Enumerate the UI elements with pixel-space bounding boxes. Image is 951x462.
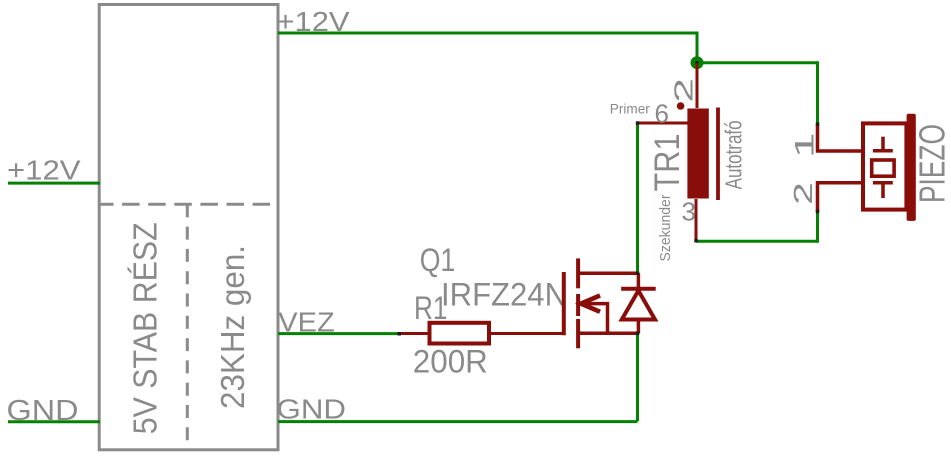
body diode triangle [622,291,655,320]
transistor Q1 channel segment 3 [576,319,580,348]
svg-text:3: 3 [682,197,697,227]
wire drain to TR1 pin6 [636,124,639,272]
transistor Q1 gate bar [562,272,566,335]
svg-text:5V STAB RÉSZ: 5V STAB RÉSZ [126,222,163,434]
transformer TR1 coil body [687,109,708,199]
body diode bottom link [637,320,641,334]
wire VEZ [278,332,399,335]
dashed divider horizontal [100,203,278,206]
piezo crystal rect [872,160,894,176]
junction mark pin3 [694,239,698,243]
resistor R1 body [430,323,490,344]
junction center mark [695,61,699,65]
piezo right bar [907,114,916,221]
svg-text:1: 1 [789,132,819,158]
transistor Q1 drain line [578,271,637,275]
transistor Q1 channel segment 1 [576,258,580,288]
transformer TR1 pin 2 [696,63,699,108]
junction mark pin6 [636,121,640,125]
svg-text:6: 6 [655,99,669,129]
wire GND right [278,420,638,423]
transformer TR1 pin 6 [638,122,689,125]
wire +12V rail top [278,33,818,124]
transformer TR1 pin 3 [695,199,698,241]
svg-text:+12V: +12V [7,155,81,186]
transistor Q1 bulk arrow head [581,296,600,312]
junction mark piezo pin2 [816,210,820,214]
transistor Q1 source line [578,332,637,336]
wire +12V left stub [8,182,100,185]
transistor Q1 channel segment 2 [576,294,580,316]
transformer TR1 polarity dot [677,102,685,110]
resistor R1 left pin [399,332,428,335]
svg-text:2: 2 [669,78,698,103]
piezo crystal plate bottom stem [881,185,885,199]
piezo crystal plate bottom [873,181,893,185]
wire source to GND [636,335,639,422]
junction mark resistor/VEZ [398,332,402,336]
svg-text:Primer: Primer [610,101,650,117]
svg-text:Szekunder: Szekunder [657,195,674,262]
junction node +12V/TR1 [691,56,704,69]
svg-text:GND: GND [277,394,347,425]
svg-text:200R: 200R [413,343,488,379]
dashed divider vertical [186,204,189,449]
junction mark piezo pin1 [816,122,820,126]
piezo crystal plate top [873,149,893,153]
svg-text:TR1: TR1 [648,134,687,192]
piezo crystal plate top stem [881,137,885,149]
piezo pin 1 wire [818,124,862,151]
module box (5V STAB / 23KHz gen.) [99,5,278,450]
body diode top link [637,273,641,289]
resistor R1 right pin / gate wire [491,332,563,335]
wire GND left stub [8,420,100,423]
svg-text:Autotrafó: Autotrafó [721,120,747,189]
svg-text:23KHz gen.: 23KHz gen. [214,245,251,409]
piezo body outline [863,123,906,209]
svg-text:Q1: Q1 [420,242,456,278]
junction mark source [636,332,640,336]
transformer TR1 core line [716,108,720,201]
svg-text:PIEZO: PIEZO [912,124,951,203]
wire TR1 pin3 to piezo loop [696,212,818,241]
piezo pin 2 wire [818,183,862,212]
svg-text:IRFZ24N: IRFZ24N [441,277,567,313]
body diode cathode bar [621,287,656,291]
transistor Q1 bulk arrow shaft [583,304,608,334]
svg-text:2: 2 [789,182,818,204]
junction mark drain [636,272,640,276]
